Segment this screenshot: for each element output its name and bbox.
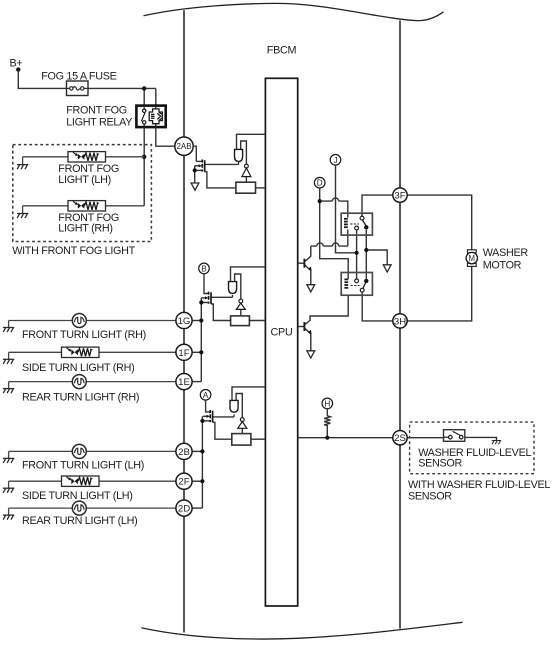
svg-text:WITH FRONT FOG LIGHT: WITH FRONT FOG LIGHT	[12, 245, 135, 257]
svg-text:WITH WASHER FLUID-LEVEL: WITH WASHER FLUID-LEVEL	[408, 479, 550, 491]
svg-text:M: M	[469, 254, 476, 263]
svg-text:FRONT TURN LIGHT (LH): FRONT TURN LIGHT (LH)	[22, 460, 144, 472]
svg-text:2B: 2B	[178, 447, 190, 458]
svg-text:2AB: 2AB	[176, 142, 191, 151]
svg-text:LIGHT RELAY: LIGHT RELAY	[66, 117, 132, 129]
svg-text:SENSOR: SENSOR	[418, 458, 462, 470]
svg-text:FRONT FOG: FRONT FOG	[66, 105, 127, 117]
svg-text:LIGHT (RH): LIGHT (RH)	[58, 223, 112, 235]
svg-text:SIDE TURN LIGHT (RH): SIDE TURN LIGHT (RH)	[22, 362, 134, 374]
svg-text:B: B	[201, 264, 207, 273]
svg-text:LIGHT (LH): LIGHT (LH)	[58, 174, 111, 186]
svg-text:FBCM: FBCM	[267, 45, 297, 57]
svg-text:3F: 3F	[394, 191, 405, 202]
svg-text:2D: 2D	[178, 504, 190, 515]
svg-text:1G: 1G	[178, 316, 191, 327]
svg-text:REAR TURN LIGHT (LH): REAR TURN LIGHT (LH)	[22, 515, 137, 527]
svg-text:CPU: CPU	[271, 327, 293, 339]
svg-text:MOTOR: MOTOR	[483, 260, 522, 272]
svg-text:SIDE TURN LIGHT (LH): SIDE TURN LIGHT (LH)	[22, 490, 133, 502]
svg-text:H: H	[324, 399, 330, 408]
svg-text:A: A	[203, 391, 209, 400]
svg-text:SENSOR: SENSOR	[408, 491, 452, 503]
svg-text:FRONT TURN LIGHT (RH): FRONT TURN LIGHT (RH)	[22, 329, 146, 341]
svg-text:3H: 3H	[394, 316, 406, 327]
svg-text:2F: 2F	[178, 477, 189, 488]
svg-text:J: J	[333, 156, 337, 165]
svg-text:D: D	[317, 179, 323, 188]
svg-text:1E: 1E	[178, 377, 190, 388]
svg-text:WASHER: WASHER	[483, 247, 529, 259]
svg-text:1F: 1F	[178, 348, 189, 359]
svg-text:REAR TURN LIGHT (RH): REAR TURN LIGHT (RH)	[22, 392, 139, 404]
svg-text:2S: 2S	[394, 433, 406, 444]
svg-text:B+: B+	[10, 58, 23, 70]
